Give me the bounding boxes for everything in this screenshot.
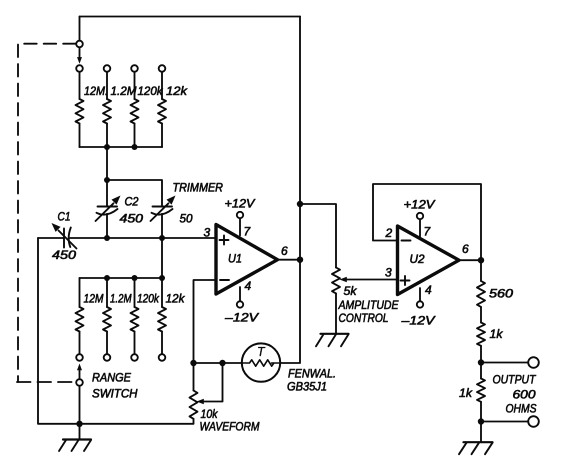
contact circle bank1 col4: [159, 65, 166, 72]
contact circle bank1 col3: [131, 65, 138, 72]
svg-text:FENWAL.: FENWAL.: [288, 367, 336, 381]
capacitor C1 450 (variable): [52, 223, 77, 249]
resistor 1.2M (upper bank): [103, 72, 111, 147]
label 560: [489, 287, 513, 301]
label OUTPUT: [493, 373, 537, 387]
junction dot output ground node: [478, 418, 484, 424]
range switch upper contact circle (12M position): [76, 65, 83, 72]
svg-text:6: 6: [281, 244, 288, 258]
label pin 4 (U2): [425, 283, 432, 297]
output terminal (return): [528, 416, 539, 427]
wire U2 output: [459, 259, 481, 261]
svg-text:1.2M: 1.2M: [110, 292, 132, 306]
svg-text:4: 4: [245, 279, 252, 293]
resistor 12k (upper bank): [158, 72, 166, 147]
svg-text:12k: 12k: [166, 292, 186, 306]
label 120k: [138, 84, 164, 98]
label 450 (C2): [120, 212, 144, 226]
svg-text:OUTPUT: OUTPUT: [493, 373, 537, 387]
U2 pin 7 wire: [419, 219, 421, 236]
label AMPLITUDE: [338, 298, 400, 312]
resistor 12k (lower bank): [158, 278, 166, 354]
potentiometer 10k WAVEFORM: [190, 363, 198, 424]
label 600: [513, 388, 536, 402]
wire switch pole drop: [79, 17, 81, 41]
junction dot pot top: [190, 360, 196, 366]
svg-text:450: 450: [120, 212, 144, 226]
capacitor C2 450 (variable): [96, 196, 121, 222]
U2 -12V terminal: [417, 301, 423, 307]
wire from bank rail down to C2: [106, 147, 108, 207]
potentiometer 5k: [332, 268, 340, 334]
svg-text:RANGE: RANGE: [92, 371, 132, 385]
svg-text:AMPLITUDE: AMPLITUDE: [338, 298, 400, 312]
trimmer capacitor 50: [151, 196, 176, 222]
svg-text:3: 3: [385, 266, 392, 280]
label 12k: [166, 292, 186, 306]
wire trimmer bottom: [161, 214, 163, 238]
svg-text:GB35J1: GB35J1: [287, 380, 327, 394]
svg-text:TRIMMER: TRIMMER: [173, 182, 224, 194]
U2 +12V terminal: [417, 213, 423, 219]
5k wiper arm to U2 pin 3: [340, 277, 398, 283]
dashed switch gang linkage: [17, 44, 76, 382]
junction dot C2 on node A: [104, 235, 110, 241]
resistor 12M (upper bank): [76, 72, 84, 147]
junction dot U2 output: [478, 257, 484, 263]
label pin 2 (U2): [385, 226, 393, 240]
wire trimmer branch top: [107, 180, 162, 207]
U1 plus input mark: [220, 236, 229, 245]
wire trimmer node to lower bank rail: [161, 238, 163, 278]
wire to output terminal: [481, 362, 528, 364]
wire top rail: [80, 16, 301, 18]
svg-text:600: 600: [513, 388, 536, 402]
svg-text:WAVEFORM: WAVEFORM: [200, 420, 260, 434]
range switch lower wiper arrow: [77, 364, 82, 379]
svg-text:560: 560: [489, 287, 513, 301]
junction dot: [104, 275, 110, 281]
op-amp U1: [216, 225, 278, 295]
label 12M: [84, 292, 104, 306]
resistor 1k (upper): [477, 323, 485, 363]
junction dot: [159, 275, 165, 281]
svg-text:OHMS: OHMS: [506, 402, 537, 416]
svg-text:+12V: +12V: [404, 198, 436, 212]
resistor 120k (lower bank): [131, 278, 139, 354]
junction dot output tap: [478, 359, 484, 365]
label pin 6 (U2): [462, 242, 469, 256]
junction dot U1 output: [297, 257, 303, 263]
resistor 1k (lower): [477, 363, 485, 422]
label -12V (U2): [400, 314, 435, 328]
op-amp U2: [398, 226, 460, 295]
contact circle lower bank col1: [76, 354, 83, 361]
contact circle lower bank col2: [104, 354, 111, 361]
label WAVEFORM: [200, 420, 260, 434]
range switch lower wiper contact: [76, 379, 83, 386]
resistor 120k (upper bank): [131, 72, 139, 147]
svg-text:CONTROL: CONTROL: [339, 311, 389, 325]
wire 5k branch from right vertical: [300, 204, 336, 268]
label GB35J1: [287, 380, 327, 394]
svg-text:2: 2: [385, 226, 393, 240]
wire U1 pin 2 feedback: [194, 280, 217, 363]
output terminal (hot): [528, 357, 539, 368]
label pin 7 (U2): [424, 225, 432, 239]
junction dot pot wiper branch: [219, 360, 225, 366]
junction dot ground node: [76, 421, 82, 427]
wire upper bank bottom rail: [80, 146, 163, 148]
label 10k: [201, 407, 219, 421]
svg-text:–12V: –12V: [224, 311, 259, 325]
wire C2 bottom: [106, 214, 108, 238]
label +12V (U1): [225, 197, 256, 211]
label SWITCH: [92, 387, 138, 401]
junction dot: [104, 144, 110, 150]
svg-text:1.2M: 1.2M: [111, 84, 137, 98]
U2 plus input mark: [401, 276, 410, 285]
contact circle lower bank col3: [131, 354, 138, 361]
svg-text:–12V: –12V: [400, 314, 435, 328]
svg-text:SWITCH: SWITCH: [92, 387, 138, 401]
wire to output terminal return: [481, 421, 528, 423]
junction dot: [132, 144, 138, 150]
range switch upper wiper arrow: [77, 48, 82, 64]
svg-text:5k: 5k: [344, 284, 358, 298]
label RANGE: [92, 371, 132, 385]
svg-text:12M: 12M: [84, 292, 104, 306]
resistor 1.2M (lower bank): [103, 278, 111, 354]
label 5k: [344, 284, 358, 298]
U1 minus input mark: [220, 279, 229, 281]
svg-text:50: 50: [180, 212, 193, 226]
label 450 (C1): [52, 248, 76, 262]
contact circle lower bank col4: [159, 354, 166, 361]
label U1: [228, 252, 242, 266]
U2 minus input mark: [402, 240, 411, 242]
resistor 560: [477, 260, 485, 322]
svg-text:1k: 1k: [459, 386, 473, 400]
U1 +12V terminal: [237, 212, 243, 218]
thermistor FENWAL GB35J1: [242, 343, 280, 381]
wire lower bank top rail: [80, 277, 163, 279]
label pin 3 (U1): [204, 226, 211, 240]
label C1: [58, 210, 71, 224]
svg-text:450: 450: [52, 248, 76, 262]
label CONTROL: [339, 311, 389, 325]
label 1.2M: [110, 292, 132, 306]
label pin 3 (U2): [385, 266, 392, 280]
svg-text:U2: U2: [410, 252, 425, 266]
ground (amplitude control): [316, 334, 349, 347]
label pin 7 (U1): [244, 225, 252, 239]
U1 -12V terminal: [237, 301, 243, 307]
wire right vertical: top rail to U1 output to thermistor: [281, 17, 301, 364]
svg-text:C2: C2: [125, 195, 139, 209]
svg-text:7: 7: [424, 225, 432, 239]
label TRIMMER: [173, 182, 224, 194]
U1 pin 7 wire: [239, 218, 241, 235]
label +12V (U2): [404, 198, 436, 212]
junction dot trimmer on node A: [159, 235, 165, 241]
wire U1 output: [278, 259, 301, 261]
ground (left): [59, 424, 91, 451]
label C2: [125, 195, 139, 209]
svg-text:12M.: 12M.: [84, 84, 108, 98]
ground (output): [459, 422, 493, 455]
svg-text:4: 4: [425, 283, 432, 297]
10k wiper arm: [197, 363, 223, 404]
label U2: [410, 252, 425, 266]
svg-text:1k: 1k: [490, 327, 504, 341]
label 1k (upper): [490, 327, 504, 341]
label 1.2M: [111, 84, 137, 98]
label -12V (U1): [224, 311, 259, 325]
wire U2 feedback loop: [373, 184, 481, 260]
svg-text:C1: C1: [58, 210, 71, 224]
svg-text:6: 6: [462, 242, 469, 256]
junction dot: [132, 275, 138, 281]
svg-text:7: 7: [244, 225, 252, 239]
label FENWAL: [288, 367, 336, 381]
range switch upper pole contact: [76, 41, 83, 48]
wire node A horizontal (C1 to U1 pin 3): [38, 237, 216, 239]
label 120k: [137, 292, 160, 306]
junction dot 5k branch: [297, 201, 303, 207]
U2 pin 4 wire: [419, 288, 421, 301]
wire wiper to bottom rail: [79, 386, 81, 424]
junction dot node trimmer branch: [104, 177, 110, 183]
svg-text:120k: 120k: [137, 292, 160, 306]
wire left rail down and bottom return: [38, 238, 193, 424]
contact circle bank1 col2: [104, 65, 111, 72]
svg-text:3: 3: [204, 226, 211, 240]
svg-text:T: T: [257, 345, 266, 359]
label 12k: [166, 84, 188, 98]
svg-text:U1: U1: [228, 252, 242, 266]
label 12M.: [84, 84, 108, 98]
label OHMS: [506, 402, 537, 416]
svg-text:120k: 120k: [138, 84, 164, 98]
label 1k (lower): [459, 386, 473, 400]
label 50: [180, 212, 193, 226]
svg-text:12k: 12k: [166, 84, 188, 98]
svg-text:+12V: +12V: [225, 197, 256, 211]
wire thermistor net: [194, 362, 243, 364]
resistor 12M (lower bank): [76, 278, 84, 354]
U1 pin 4 wire: [239, 287, 241, 301]
label pin 4 (U1): [245, 279, 252, 293]
label pin 6 (U1): [281, 244, 288, 258]
label T: [257, 345, 266, 359]
